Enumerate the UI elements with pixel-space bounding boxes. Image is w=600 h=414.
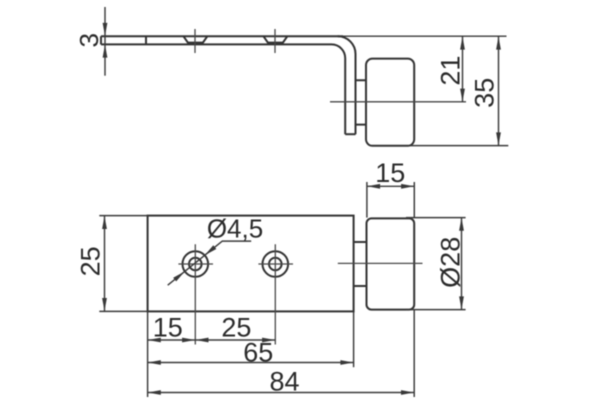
svg-text:15: 15 [153,313,183,343]
svg-text:Ø4,5: Ø4,5 [207,214,263,244]
svg-text:3: 3 [74,33,104,47]
svg-text:21: 21 [435,56,465,86]
svg-text:25: 25 [75,246,105,276]
svg-text:84: 84 [269,367,299,397]
svg-text:15: 15 [375,158,405,188]
svg-text:65: 65 [243,337,273,367]
svg-text:35: 35 [470,78,500,108]
svg-text:Ø28: Ø28 [435,237,465,288]
